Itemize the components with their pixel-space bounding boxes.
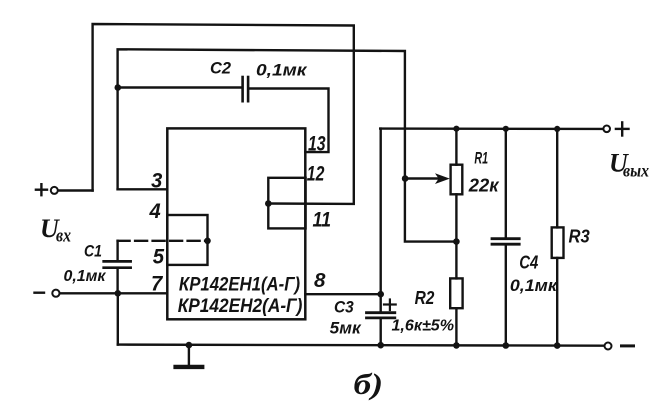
svg-text:8: 8 [314,270,326,292]
svg-text:С1: С1 [84,243,102,261]
svg-text:5мк: 5мк [330,319,362,338]
svg-text:1,6к±5%: 1,6к±5% [392,318,455,335]
svg-text:б): б) [354,369,384,401]
svg-text:R1: R1 [474,148,488,167]
svg-text:0,1мк: 0,1мк [510,277,559,295]
svg-text:13: 13 [308,132,326,156]
svg-text:С2: С2 [210,60,231,78]
svg-text:3: 3 [151,169,162,193]
svg-text:0,1мк: 0,1мк [256,62,308,80]
svg-text:R3: R3 [569,227,590,247]
svg-text:5: 5 [153,244,165,268]
svg-text:22к: 22к [468,174,500,195]
svg-text:С3: С3 [334,297,354,316]
svg-text:7: 7 [151,273,164,296]
svg-text:0,1мк: 0,1мк [64,268,107,285]
svg-text:11: 11 [313,208,332,232]
svg-text:R2: R2 [415,288,435,308]
svg-text:вх: вх [56,225,71,246]
svg-text:КР142ЕН2(А-Г): КР142ЕН2(А-Г) [178,295,303,317]
svg-text:12: 12 [307,162,325,186]
svg-text:4: 4 [149,200,161,223]
svg-text:С4: С4 [519,253,538,273]
svg-text:КР142ЕН1(А-Г): КР142ЕН1(А-Г) [179,274,300,296]
svg-text:вых: вых [623,161,649,181]
